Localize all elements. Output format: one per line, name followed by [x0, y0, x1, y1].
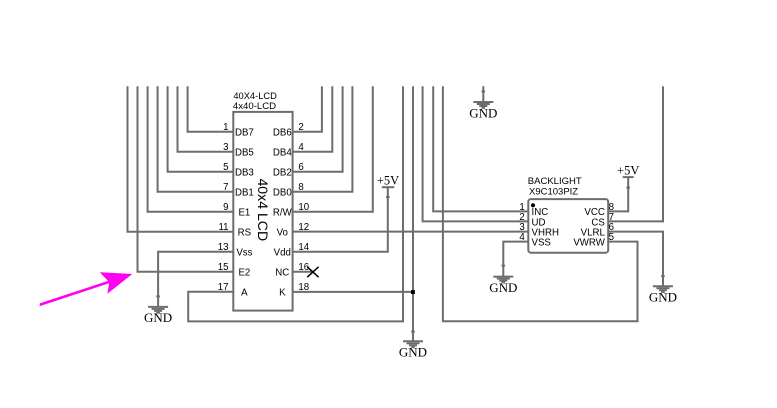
- svg-text:5: 5: [223, 162, 228, 173]
- wire pin8 DB0: [292, 86, 352, 192]
- svg-text:K: K: [279, 288, 286, 299]
- svg-text:RS: RS: [238, 228, 252, 239]
- X9C103PIZ U2 box: [528, 199, 608, 253]
- svg-text:4: 4: [519, 232, 525, 243]
- svg-text:GND: GND: [469, 105, 497, 120]
- wire pin7 DB1: [158, 86, 234, 192]
- wire pin5 DB3: [168, 86, 234, 172]
- svg-text:17: 17: [218, 282, 229, 293]
- svg-text:11: 11: [218, 222, 228, 233]
- wire X9C pin6 VLRL to ground: [608, 232, 663, 286]
- X9C left pin labels: [532, 207, 559, 248]
- svg-text:GND: GND: [489, 280, 517, 295]
- wire pin15 E2: [138, 86, 234, 272]
- svg-text:4: 4: [298, 142, 304, 153]
- svg-text:+5V: +5V: [617, 164, 639, 178]
- wire pin18 K: [292, 291, 413, 293]
- svg-text:4x40-LCD: 4x40-LCD: [233, 101, 276, 112]
- annotation arrow magenta: [39, 272, 132, 306]
- X9C left pin numbers: [519, 202, 525, 243]
- wire X9C pin5 VWRW loop: [443, 86, 638, 321]
- svg-text:8: 8: [298, 182, 303, 193]
- wire pin16 NC stub: [292, 271, 313, 273]
- wire pin6 DB2: [292, 86, 342, 172]
- svg-text:NC: NC: [275, 268, 289, 279]
- svg-text:13: 13: [218, 242, 229, 253]
- svg-text:40x4 LCD: 40x4 LCD: [255, 178, 271, 241]
- svg-text:R/W: R/W: [273, 208, 293, 219]
- svg-text:X9C103PIZ: X9C103PIZ: [529, 186, 578, 197]
- LCD left pin numbers: [218, 122, 229, 293]
- svg-text:1: 1: [223, 122, 228, 133]
- wire pin4 DB4: [292, 86, 332, 152]
- svg-text:40X4-LCD: 40X4-LCD: [233, 91, 277, 101]
- wire pin17 A loop: [188, 86, 403, 321]
- svg-text:BACKLIGHT: BACKLIGHT: [528, 176, 582, 187]
- svg-text:2: 2: [298, 122, 303, 133]
- svg-text:6: 6: [298, 162, 303, 173]
- svg-text:E2: E2: [238, 268, 250, 279]
- pin1 marker dot: [531, 203, 535, 207]
- svg-text:3: 3: [223, 142, 228, 153]
- svg-text:DB3: DB3: [235, 168, 254, 179]
- ground symbol top: [473, 92, 493, 108]
- LCD right pin numbers: [298, 122, 309, 293]
- svg-text:7: 7: [223, 182, 228, 193]
- wire pin14 Vdd to +5V: [292, 188, 387, 252]
- wire pin2 DB6: [292, 86, 322, 132]
- X9C right pin numbers: [609, 202, 614, 243]
- svg-text:DB4: DB4: [273, 148, 292, 159]
- ground symbol at X9C VSS: [493, 266, 513, 283]
- wire X9C pin7 CS: [608, 86, 663, 221]
- wire X9C pin4 VSS to ground: [503, 242, 528, 277]
- LCD right pin labels: [273, 128, 293, 299]
- ground symbol at VLRL: [653, 276, 673, 292]
- svg-text:18: 18: [298, 282, 309, 293]
- svg-text:DB2: DB2: [273, 168, 292, 179]
- ground symbol at K net: [403, 332, 423, 348]
- svg-text:15: 15: [218, 262, 229, 273]
- svg-text:12: 12: [298, 222, 309, 233]
- svg-text:A: A: [241, 288, 248, 299]
- wire X9C pin1 INC: [433, 86, 528, 211]
- svg-text:DB6: DB6: [273, 128, 292, 139]
- wire pin11 RS: [128, 86, 234, 232]
- svg-text:DB5: DB5: [235, 148, 254, 159]
- LCD U1 box: [233, 112, 292, 311]
- svg-text:VSS: VSS: [532, 238, 552, 249]
- wire X9C pin8 VCC to +5V: [608, 178, 628, 211]
- svg-text:DB1: DB1: [235, 188, 254, 199]
- svg-text:5: 5: [609, 232, 614, 243]
- wire pin3 DB5: [178, 86, 234, 152]
- svg-text:GND: GND: [399, 345, 427, 360]
- svg-text:GND: GND: [649, 290, 677, 305]
- svg-text:14: 14: [298, 242, 309, 253]
- wire stub to top ground: [482, 86, 484, 101]
- wire pin10 R/W: [292, 86, 372, 212]
- svg-text:+5V: +5V: [377, 174, 399, 188]
- svg-text:Vo: Vo: [277, 228, 288, 239]
- X9C right pin labels: [573, 207, 605, 248]
- ground symbol at Vss: [148, 296, 168, 312]
- wire pin9 E1: [148, 86, 234, 212]
- wire net K vertical to ground: [412, 86, 414, 341]
- LCD left pin labels: [235, 128, 254, 299]
- wire pin12 Vo to VHRH: [292, 231, 528, 233]
- wire pin1 DB7: [188, 86, 234, 132]
- junction dot K net: [411, 290, 415, 294]
- svg-text:Vdd: Vdd: [274, 248, 291, 259]
- svg-text:Vss: Vss: [236, 248, 252, 259]
- svg-text:9: 9: [223, 202, 228, 213]
- svg-text:DB7: DB7: [235, 128, 254, 139]
- svg-text:DB0: DB0: [273, 188, 292, 199]
- wire pin13 Vss to ground: [158, 252, 233, 307]
- no-connect X on pin 16: [307, 267, 318, 277]
- wire X9C pin2 UD: [423, 86, 529, 221]
- svg-text:GND: GND: [144, 310, 172, 325]
- svg-text:10: 10: [298, 202, 309, 213]
- svg-text:E1: E1: [238, 208, 250, 219]
- svg-text:VWRW: VWRW: [573, 238, 605, 249]
